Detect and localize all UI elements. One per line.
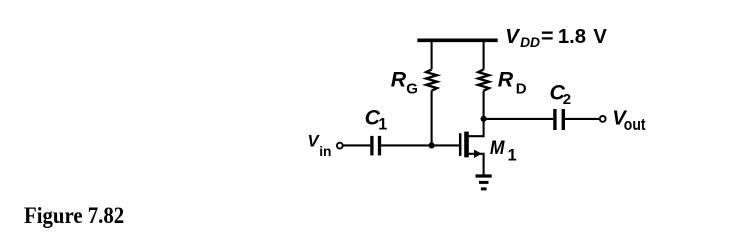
capacitor C1	[372, 136, 380, 156]
ground	[476, 176, 492, 189]
svg-text:Figure 7.82: Figure 7.82	[24, 203, 124, 228]
output terminal circle (Vout)	[600, 116, 606, 122]
resistor RD	[478, 69, 489, 90]
svg-text:V: V	[505, 26, 520, 48]
svg-text:2: 2	[563, 91, 571, 108]
label C1	[365, 105, 388, 133]
input terminal circle (Vin)	[337, 143, 343, 149]
VDD supply rail	[417, 38, 497, 42]
wire: C1 to gate of M1	[381, 144, 459, 146]
label Vout	[612, 107, 646, 134]
svg-text:DD: DD	[520, 35, 540, 50]
svg-text:=: =	[541, 24, 554, 48]
transistor M1 source lead	[468, 154, 484, 175]
svg-text:in: in	[319, 144, 331, 159]
svg-text:D: D	[516, 80, 527, 97]
capacitor C2	[555, 109, 563, 130]
wire: C2 to Vout terminal	[565, 118, 599, 120]
label M1	[490, 137, 517, 164]
label RG	[391, 68, 418, 98]
wire: RG bottom to gate node	[431, 91, 433, 146]
label RD	[498, 68, 527, 98]
svg-text:R: R	[391, 68, 407, 92]
wire: Vin terminal to C1	[343, 144, 370, 146]
svg-text:out: out	[624, 115, 646, 134]
svg-text:1: 1	[508, 146, 517, 164]
label VDD = 1.8 V	[505, 24, 607, 50]
wire: drain node to C2	[484, 118, 554, 120]
label C2	[550, 81, 572, 109]
transistor M1 channel bar	[464, 132, 469, 158]
wire: rail to RD top	[483, 40, 485, 69]
svg-text:1.8 V: 1.8 V	[558, 26, 608, 48]
node: gate junction dot	[429, 142, 435, 148]
resistor RG	[426, 69, 437, 90]
svg-text:1: 1	[378, 116, 387, 134]
transistor M1 source arrow	[474, 150, 482, 158]
svg-text:G: G	[406, 80, 418, 97]
wire: RD bottom to drain node	[483, 91, 485, 119]
label Vin	[308, 133, 332, 160]
svg-text:R: R	[498, 68, 514, 92]
transistor M1 gate bar	[459, 133, 462, 156]
wire: rail to RG top	[431, 40, 433, 69]
transistor M1 drain lead	[468, 119, 484, 136]
node: drain junction dot	[481, 116, 487, 122]
caption Figure 7.82	[24, 203, 124, 228]
svg-text:M: M	[490, 137, 505, 159]
